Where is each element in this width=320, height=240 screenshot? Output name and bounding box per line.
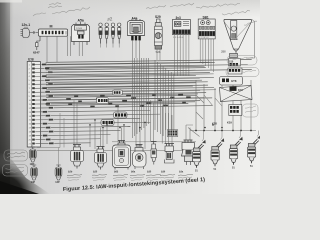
injector INJ1 — [193, 140, 206, 173]
svg-text:12345: 12345 — [76, 28, 83, 30]
junction dots — [89, 119, 223, 128]
solenoid valve V2 — [31, 165, 38, 184]
svg-text:U:B: U:B — [28, 58, 34, 62]
annotation handwriting top-middle — [146, 3, 194, 9]
wire — [68, 36, 71, 56]
connector J9 (pin cluster) — [113, 90, 123, 95]
svg-text:12B: 12B — [30, 163, 35, 166]
connector J8 (pin cluster) — [97, 98, 109, 104]
injector INJ3 — [230, 137, 243, 170]
vertical wire bundle C (to injectors) — [190, 80, 256, 131]
module GT — [220, 77, 243, 86]
annotation oval left 2 — [3, 165, 28, 177]
injector INJ4 — [248, 135, 261, 168]
wire drops to sensors — [74, 100, 190, 149]
wire — [47, 36, 57, 62]
wire bundle (horizontal) — [46, 60, 253, 106]
injector INJ2 — [211, 138, 224, 171]
sensor S29 — [154, 15, 162, 60]
sensor S3a (big) — [182, 140, 196, 165]
wire — [37, 113, 196, 150]
fuse box SB1 — [198, 16, 215, 73]
spark plug P3 — [111, 23, 115, 48]
fuse F1 "6247" — [33, 36, 40, 54]
svg-text:K28: K28 — [212, 122, 217, 126]
wire labels K28 K29 — [212, 121, 232, 126]
svg-text:13P: 13P — [55, 181, 60, 184]
connector J5 — [114, 112, 128, 118]
svg-text:12v-1: 12v-1 — [22, 23, 31, 27]
sensor S6b — [133, 145, 147, 170]
svg-text:K29: K29 — [227, 121, 232, 125]
wire (diagonal to injectors) — [186, 95, 222, 137]
svg-text:6247: 6247 — [33, 51, 40, 55]
spark plug P4 — [117, 23, 121, 48]
svg-text:1 2 3 4 5 6: 1 2 3 4 5 6 — [199, 37, 209, 39]
motor M1 (crossed box) — [220, 86, 253, 102]
ignition module A5a — [72, 19, 90, 57]
svg-text:M: M — [50, 25, 53, 29]
svg-text:1 2 3 4 5 6: 1 2 3 4 5 6 — [173, 37, 184, 39]
connector strip M — [39, 25, 68, 37]
connector J2 — [229, 59, 241, 67]
annotation "#2" — [107, 16, 113, 22]
ignition module A4a — [128, 17, 145, 59]
annotation oval 1 — [227, 56, 257, 66]
connector J6 — [101, 120, 114, 126]
annotation handwriting top-right — [196, 3, 257, 25]
svg-text:A5a: A5a — [78, 19, 84, 23]
connector J4 — [229, 105, 242, 116]
solenoid valve V1 — [29, 147, 36, 166]
vertical wire bundle B — [155, 60, 174, 136]
wire — [30, 31, 39, 33]
annotation oval left 1 — [4, 150, 28, 161]
component label texts (bottom row) — [67, 170, 193, 180]
connector J7 (pin block) — [167, 130, 178, 137]
spark plug P1 — [99, 23, 103, 48]
svg-text:2B8: 2B8 — [221, 50, 226, 54]
svg-text:K15: K15 — [238, 88, 243, 92]
sensor S25 — [95, 147, 107, 170]
fuel pump assembly B1 — [221, 20, 252, 58]
wire — [202, 131, 259, 142]
relay K1 "3v3" — [172, 16, 190, 76]
solenoid valve V3 — [55, 165, 62, 184]
annotation oval 2 — [226, 68, 259, 77]
svg-text:GT8: GT8 — [231, 79, 237, 83]
svg-text:S29: S29 — [155, 15, 161, 19]
ECU connector U1 — [27, 58, 40, 148]
vertical wire bundle A — [132, 58, 148, 138]
sensor S39 — [165, 144, 175, 164]
annotation handwriting top-left — [33, 3, 90, 16]
wire — [33, 145, 60, 165]
svg-text:S2b: S2b — [68, 170, 73, 173]
wire-code labels (mid lines) — [66, 94, 191, 108]
connector X1 "12v-1" — [21, 23, 31, 38]
ECU pin wires and wire-code labels — [34, 61, 216, 145]
sensor S26 — [71, 145, 84, 169]
svg-text:A4a: A4a — [132, 17, 138, 21]
connector J3 — [228, 68, 242, 74]
sensor S35 (thin) — [151, 142, 157, 165]
wire — [246, 20, 255, 59]
svg-text:S10: S10 — [229, 60, 234, 63]
caption "Figuur 12.5" — [63, 177, 206, 193]
svg-text:14P: 14P — [31, 181, 36, 184]
annotation oval 3 — [243, 104, 259, 117]
spark plug P2 — [105, 23, 109, 48]
sensor S63 — [113, 141, 131, 170]
